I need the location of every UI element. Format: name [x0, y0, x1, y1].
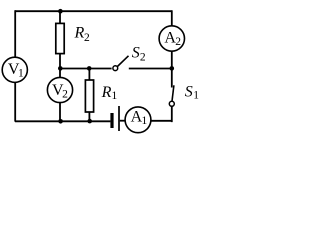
resistor R2	[56, 23, 64, 53]
svg-text:1: 1	[112, 90, 118, 102]
svg-text:1: 1	[142, 115, 148, 127]
voltmeter V2	[47, 77, 72, 102]
node dot middle-right junction	[170, 66, 175, 71]
switch S2 pivot circle	[113, 66, 118, 71]
svg-text:1: 1	[18, 68, 24, 80]
wire battery to A1	[120, 120, 127, 122]
wire R2 branch	[59, 11, 61, 68]
battery positive plate (long thin)	[118, 106, 120, 131]
battery negative plate (short thick)	[110, 113, 113, 128]
wire middle rail left segment	[60, 68, 112, 70]
wire S1 upper segment	[171, 68, 173, 87]
voltmeter V1	[2, 57, 27, 82]
svg-text:S: S	[132, 45, 140, 62]
svg-text:R: R	[74, 24, 85, 41]
label R2	[74, 24, 91, 44]
wire R1 branch	[88, 69, 90, 122]
node dot bottom V2	[58, 119, 63, 124]
ammeter A2	[159, 26, 184, 51]
switch S1 pivot circle	[169, 101, 174, 106]
switch S2 blade	[117, 56, 128, 67]
svg-text:2: 2	[84, 32, 90, 44]
wire bottom rail left	[15, 120, 110, 122]
svg-text:2: 2	[62, 89, 68, 101]
wire middle rail right segment	[129, 68, 172, 70]
wire A1 to bottom-right corner	[151, 120, 172, 122]
svg-text:S: S	[185, 83, 193, 100]
svg-text:2: 2	[175, 36, 181, 48]
wire right border A2-to-junction	[171, 50, 173, 68]
wire V2 branch	[59, 69, 61, 122]
ammeter A1	[125, 107, 151, 133]
node dot bottom R1	[87, 119, 92, 124]
node dot middle-left	[58, 66, 63, 71]
svg-text:2: 2	[140, 51, 146, 63]
label R1	[101, 84, 118, 102]
svg-text:1: 1	[193, 89, 199, 101]
wire top rail	[15, 10, 172, 12]
svg-text:R: R	[101, 84, 112, 101]
label S2	[132, 45, 146, 64]
wire bottom-right corner	[171, 106, 173, 122]
node dot middle R1 tap	[87, 66, 92, 71]
switch S1 blade	[172, 85, 174, 101]
wire right border upper (top corner to A2)	[171, 10, 173, 38]
wire left border	[14, 10, 16, 121]
label S1	[185, 83, 200, 101]
resistor R1	[85, 80, 93, 112]
node dot top (R2 tap on top rail)	[58, 9, 63, 14]
